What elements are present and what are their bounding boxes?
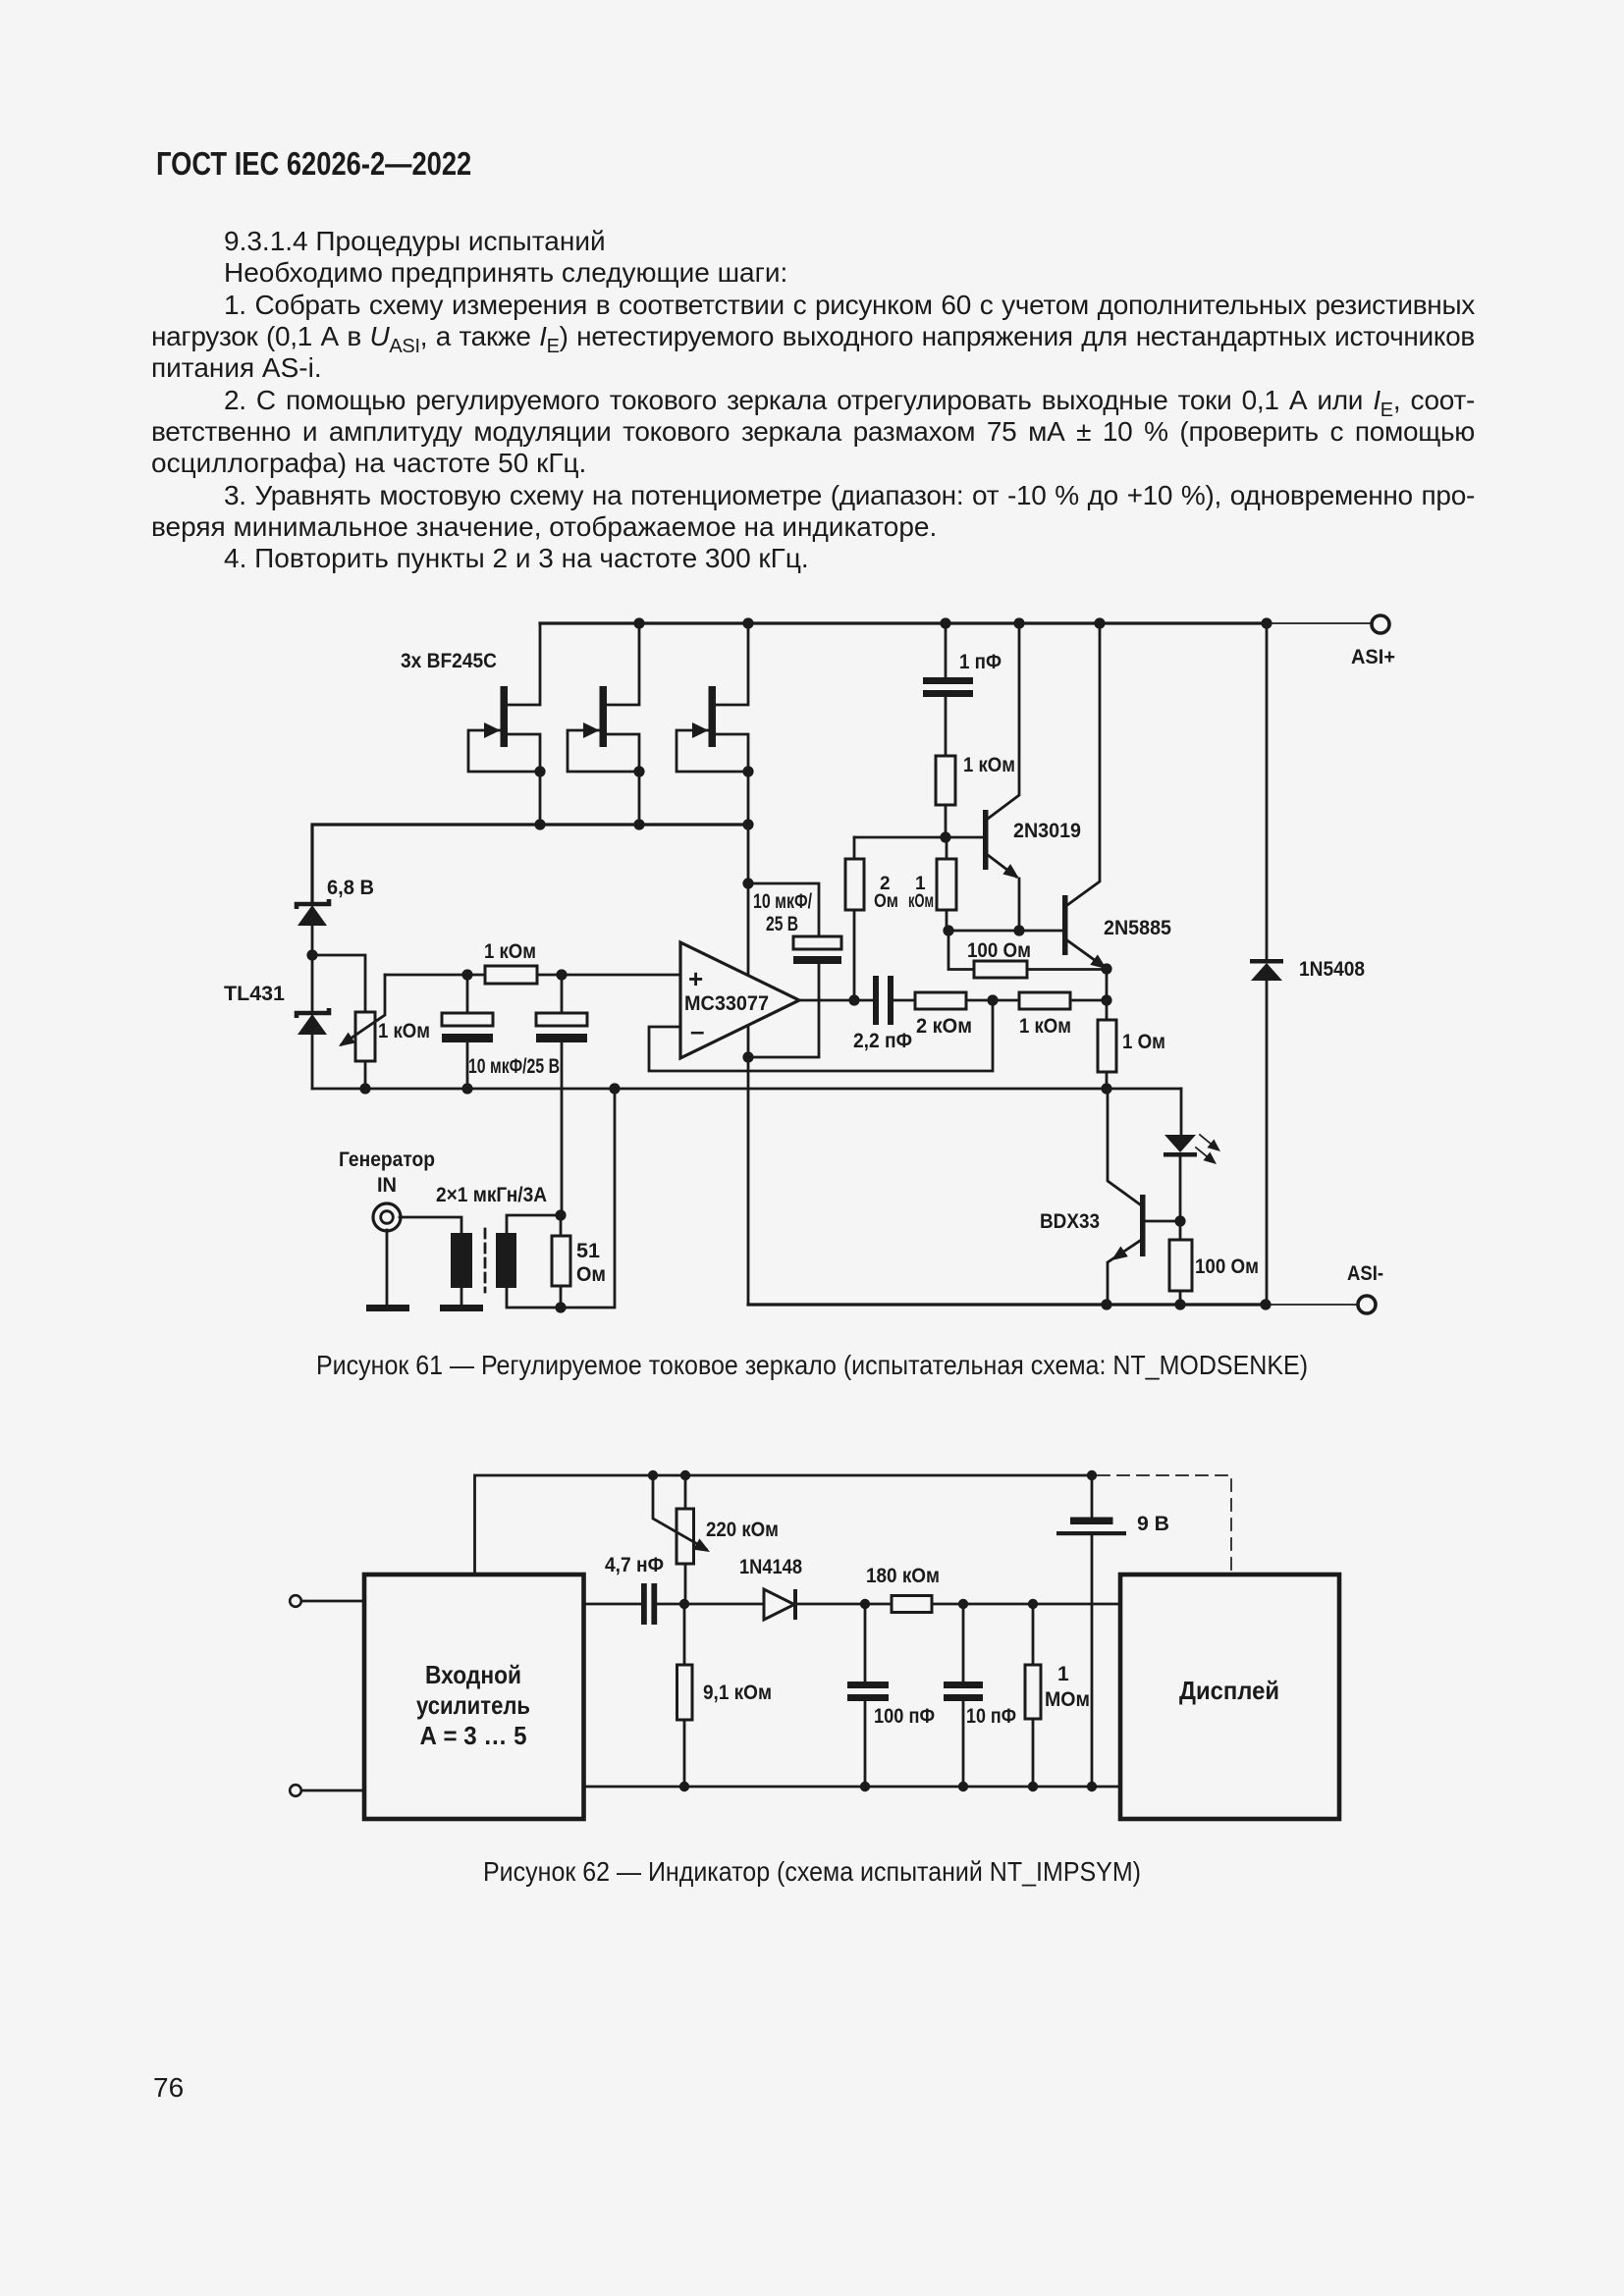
svg-text:100 Ом: 100 Ом [1195,1255,1259,1278]
svg-text:1 кОм: 1 кОм [963,754,1015,776]
capacitor C8 10 пФ [944,1604,1016,1787]
svg-text:BDX33: BDX33 [1040,1210,1100,1233]
page number [153,2072,184,2104]
svg-text:ASI+: ASI+ [1351,646,1395,668]
svg-text:Ом: Ом [576,1263,606,1286]
svg-text:1 пФ: 1 пФ [959,651,1001,673]
resistor R13 9,1 кОм [677,1604,773,1787]
wire: long vertical net from JFET sources down to ASI- rail [747,825,750,1305]
resistor R6 2 Ом [845,837,898,1000]
wire: emitter node down through 1 Ом [1106,969,1109,1020]
zener diode VD2 (TL431) [224,955,329,1089]
svg-text:51: 51 [576,1240,600,1262]
op-amp DA1 MC33077 [649,942,993,1071]
transistor V3 (BF245C JFET 3) [677,623,748,825]
svg-text:100 Ом: 100 Ом [967,939,1031,962]
svg-text:100 пФ: 100 пФ [874,1705,935,1728]
wire: 2N3019 base line [854,836,983,839]
svg-text:1 кОм: 1 кОм [378,1020,430,1042]
wire: LED branch from rail [1180,1089,1183,1135]
svg-text:кОм: кОм [908,891,934,912]
resistor R9 1 Ом [1098,1020,1165,1089]
wire: ASI+ top rail [540,621,1267,624]
svg-text:1 кОм: 1 кОм [484,940,536,963]
transformer T1 2×1 мкГн/3А [436,1089,615,1308]
junction dots figure 61 [306,617,1272,1312]
svg-text:6,8 В: 6,8 В [327,877,374,899]
svg-text:2N3019: 2N3019 [1013,820,1081,842]
transistor V2 (BF245C JFET 2) [568,623,639,825]
wire: op-amp output line [799,999,873,1002]
resistor R14 180 кОм [866,1565,1120,1613]
wire: lower mid rail [312,1088,1181,1091]
wire: top supply rail [475,1475,1093,1575]
svg-text:1: 1 [1057,1663,1069,1685]
resistor R5 1 кОм (collector) [936,754,1015,837]
svg-text:25 В: 25 В [766,913,798,935]
transistor VT3 BDX33 [1040,1089,1180,1305]
LED VD3 [1164,1135,1223,1221]
transistor V1 (BF245C JFET 1) [468,623,540,825]
battery GB1 9 В [1056,1475,1169,1787]
capacitor C1 10 мкФ/25 В [442,975,493,1089]
svg-text:2N5885: 2N5885 [1104,917,1171,939]
svg-text:220 кОм: 220 кОм [706,1519,779,1541]
svg-text:2,2 пФ: 2,2 пФ [853,1030,912,1052]
node ASI+ terminal [1372,615,1389,633]
svg-text:3x BF245C: 3x BF245C [401,650,497,672]
resistor R15 1 МОм [1025,1604,1090,1787]
svg-text:усилитель: усилитель [416,1690,530,1720]
wire: top rail thin lead to ASI+ terminal [1267,622,1372,624]
svg-text:2 кОм: 2 кОм [916,1015,972,1038]
capacitor C6 4,7 нФ [605,1554,684,1625]
svg-text:1N4148: 1N4148 [739,1556,802,1578]
resistor R7 1 кОм [908,837,956,931]
diode VD5 1N4148 [684,1556,892,1620]
resistor R8 100 Ом [948,931,1107,978]
transistor VT1 2N3019 [983,623,1081,931]
wire: bottom return rail [584,1786,1121,1789]
capacitor C5 1 пФ [923,623,1001,756]
svg-text:1 кОм: 1 кОм [1019,1015,1071,1038]
wire: gate bias rail under JFETs [312,825,748,903]
svg-text:IN: IN [377,1174,397,1197]
resistor R2 1 кОм (series input) [484,940,537,984]
input amplifier block [364,1575,584,1819]
svg-text:МОм: МОм [1045,1688,1090,1711]
resistor R10 100 Ом [1169,1221,1259,1305]
svg-text:МС33077: МС33077 [684,992,769,1015]
input terminal lower [290,1785,364,1796]
svg-text:1N5408: 1N5408 [1299,958,1365,981]
display block [1120,1575,1339,1819]
junction dots figure 62 [648,1470,1097,1791]
svg-text:9 В: 9 В [1137,1513,1169,1535]
resistor R3 2 кОм [915,992,1019,1038]
resistor R4 1 кОм [1019,992,1107,1038]
figure 61 caption [86,1350,1537,1381]
svg-text:Ом: Ом [874,891,898,912]
wire: zener chain to pot branch [312,955,365,1012]
wire: ASI- bottom rail [748,1303,1266,1306]
svg-text:10 мкФ/25 В: 10 мкФ/25 В [468,1055,560,1078]
svg-text:Генератор: Генератор [339,1148,435,1171]
potentiometer R12 220 кОм [653,1475,779,1604]
svg-text:А = 3 … 5: А = 3 … 5 [420,1721,527,1750]
svg-text:2×1 мкГн/3А: 2×1 мкГн/3А [436,1184,547,1206]
svg-text:180 кОм: 180 кОм [866,1565,940,1587]
potentiometer R1 1 кОм [335,975,430,1089]
svg-text:Входной: Входной [425,1660,521,1689]
wire: 2N5885 base line [948,930,1062,933]
svg-text:TL431: TL431 [224,983,285,1005]
ground (generator) [366,1230,409,1311]
resistor R11 51 Ом [552,1215,606,1308]
capacitor C3 10 мкФ/25 В (op-amp supply) [748,883,841,1057]
capacitor C4 2,2 пФ [853,976,915,1052]
ground (transformer primary) [440,1305,483,1311]
svg-text:10 пФ: 10 пФ [966,1705,1016,1728]
svg-text:Дисплей: Дисплей [1179,1676,1279,1705]
body text [151,227,1475,256]
svg-text:10 мкФ/: 10 мкФ/ [753,890,812,913]
svg-text:9,1 кОм: 9,1 кОм [703,1682,772,1704]
capacitor C2 10 мкФ/25 В [468,975,587,1215]
diode VD4 1N5408 [1250,623,1365,1305]
zener diode VD1 6,8 В [297,877,374,955]
running header [156,145,471,183]
wire: op-amp + input line [385,974,680,977]
svg-text:+: + [688,964,703,993]
wire: dashed link to display [1098,1475,1231,1571]
svg-text:4,7 нФ: 4,7 нФ [605,1554,664,1576]
wire: signal line from amplifier [584,1603,642,1606]
node ASI- terminal [1358,1296,1376,1313]
figure 62 caption [86,1856,1537,1888]
svg-text:–: – [690,1016,704,1045]
generator input terminal [339,1148,461,1233]
svg-text:ASI-: ASI- [1347,1262,1383,1285]
svg-text:1 Ом: 1 Ом [1122,1031,1165,1053]
capacitor C7 100 пФ [847,1604,935,1787]
transistor VT2 2N5885 [1062,623,1171,974]
input terminal upper [290,1595,364,1607]
